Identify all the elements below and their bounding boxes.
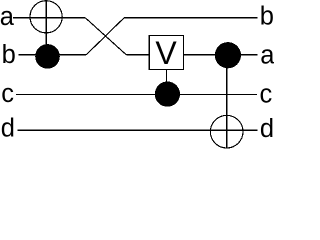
vertical line CNOT2 (control b to target d) [226,55,228,148]
svg-text:a: a [260,42,274,70]
CNOT2 control dot on wire b [215,42,241,68]
svg-text:V: V [155,35,177,71]
svg-text:b: b [260,3,274,31]
svg-text:c: c [260,81,273,109]
wire top-right segment (to output b) [124,17,257,19]
CNOT1 control dot on wire b [35,44,60,69]
wire b diagonal (swap crossing, going up) [86,18,124,55]
svg-text:b: b [2,41,16,69]
CNOT1 target circle on wire a [30,1,62,33]
wire d [18,129,258,131]
vertical line CNOT1 (target a to control b) [45,1,47,57]
wire c [16,94,257,96]
wire a left segment [13,17,85,19]
CNOT2 target circle on wire d [210,115,243,148]
controlled-V gate box U1 [149,36,183,70]
wire mid segment into V box [126,54,149,56]
wire b right segment (box to output a) [184,54,258,56]
svg-text:d: d [1,115,15,143]
svg-text:c: c [1,80,14,108]
svg-text:a: a [0,3,15,31]
vertical connector V box to control dot on c [165,70,167,95]
control dot on wire c [155,82,180,107]
wire b left segment [19,54,87,56]
wire a diagonal (swap crossing, going down) [85,18,126,55]
svg-text:d: d [260,115,274,143]
